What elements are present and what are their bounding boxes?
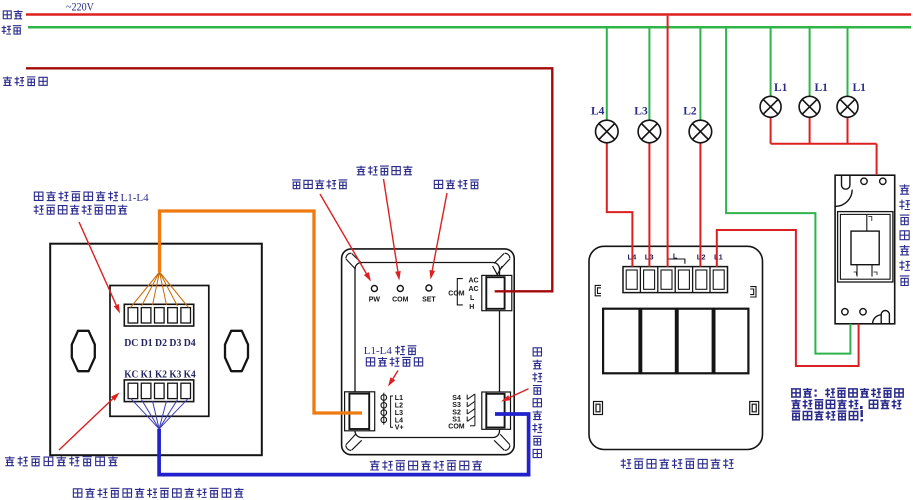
lamp labels [591, 82, 866, 118]
warning note line1 注意：浪涌电流抑制器 [792, 389, 800, 397]
connector P2 bottom-left (L1-L4 V+ outputs) [345, 392, 375, 431]
suppressor top-left arc [835, 190, 852, 207]
label 通讯指示灯 [356, 166, 365, 175]
arrow to LED SET [432, 193, 447, 271]
svg-text:L2: L2 [395, 403, 403, 410]
svg-text:H: H [469, 304, 474, 311]
switch contact symbols S4-S1 [467, 394, 475, 426]
svg-text:L3: L3 [634, 106, 648, 118]
label 分布式驱动模块背面 [621, 459, 631, 469]
suppressor top screw holes [861, 178, 867, 184]
suppressor pins and marks [854, 215, 878, 277]
svg-text:L1-L4: L1-L4 [121, 192, 150, 204]
svg-text:AC: AC [469, 278, 479, 285]
wire orange feedback harness panel to module P2 [160, 211, 363, 413]
wire neutral 零线 rail [28, 26, 911, 29]
svg-text:S4: S4 [452, 395, 461, 402]
labels S4 S3 S2 S1 COM [448, 395, 465, 431]
module U2 分布式驱动模块背面 body [589, 246, 763, 449]
arrow to connector J1 [79, 222, 116, 305]
labels L1 L2 L3 L4 V+ [395, 395, 404, 431]
svg-text:PW: PW [369, 297, 381, 304]
svg-text:L2: L2 [683, 106, 697, 118]
suppressor bottom-right arc [873, 315, 882, 324]
svg-text:L1: L1 [815, 82, 829, 94]
connector J2 bottom (KC K1-K4 key contacts) [124, 380, 193, 402]
arrow to LED COM [384, 179, 398, 271]
blue fan-out wires from connector J2 [131, 398, 189, 429]
label 浪涌电流抑制器 vertical [900, 184, 910, 194]
wire live drop to terminal L [667, 16, 669, 267]
label 状态反馈指示接口 [34, 205, 44, 214]
wire neutral drop to lamp L2 [699, 28, 701, 121]
suppressor top-left DIN notch [842, 175, 850, 189]
svg-text:S2: S2 [452, 409, 461, 416]
svg-text:COM: COM [448, 290, 465, 297]
connector P3 bottom-right (S4-S1 COM inputs) [482, 392, 511, 429]
svg-text:L1: L1 [774, 82, 788, 94]
LED SET [426, 285, 432, 291]
panel 第三方干接点面板 outer body [50, 244, 262, 456]
label 反馈指示灯 [366, 358, 374, 366]
labels AC AC L H [469, 278, 479, 311]
svg-text:L4: L4 [395, 417, 403, 424]
arrow to connector P3 [509, 389, 528, 398]
wire suppressor bottom to terminal L1 [717, 230, 859, 366]
lamp L2 [689, 120, 712, 143]
label 干接点信号控制按键 [5, 456, 15, 466]
svg-text:AC: AC [469, 286, 479, 293]
relay cover rectangles x4 [603, 309, 748, 374]
module U1 inner face [355, 263, 500, 438]
svg-text:SET: SET [422, 297, 436, 304]
label 零线 [2, 25, 11, 34]
lamp L3 [638, 120, 661, 143]
svg-text:~220V: ~220V [66, 2, 95, 14]
suppressor bottom screw holes [842, 309, 848, 315]
svg-text:S3: S3 [452, 402, 461, 409]
svg-text:L1: L1 [853, 82, 867, 94]
svg-text:V+: V+ [395, 425, 404, 432]
wire lamp L4 to terminal L4 [607, 143, 633, 267]
label 电源指示灯 [292, 180, 301, 189]
svg-text:COM: COM [392, 297, 409, 304]
suppressor inner double frame [838, 212, 893, 282]
panel inner rectangle [110, 286, 209, 417]
clip upper-left [595, 285, 601, 295]
lamp L1 c [837, 96, 858, 117]
warning note line3 导致模块损坏！ [792, 411, 801, 420]
svg-text:L4: L4 [591, 106, 605, 118]
pin header line for L1-V+ labels [391, 396, 393, 427]
wire lamp L2 to terminal L2 [699, 143, 701, 267]
svg-text:L1-L4: L1-L4 [364, 345, 393, 357]
orange fan-out wires to connector J1 [131, 272, 189, 308]
module U1 corner bevels [346, 253, 510, 450]
lamp L1 a [760, 96, 781, 117]
warning note line2 必须接入零线，否则会 [791, 399, 800, 408]
labels PW COM SET [369, 297, 437, 304]
LED COM [397, 286, 403, 292]
LED PW [371, 286, 377, 292]
connector J1 top (DC D1-D4 feedback interface) [124, 304, 193, 326]
wire neutral drop to lamp L4 [606, 28, 608, 121]
connector P1 top-right (COM AC AC L H) [482, 275, 512, 310]
module U1 分布式驱动模块正面 outer body [342, 249, 515, 455]
wire blue key-signal harness panel to module P3 [159, 414, 528, 475]
surge suppressor 浪涌电流抑制器 body [835, 175, 895, 324]
label 分布式驱动模块正面 [370, 460, 380, 470]
svg-text:L1: L1 [714, 253, 723, 262]
wire system bus 系统总线 to module P1 [26, 68, 552, 291]
wire lamp L3 to terminal L3 [648, 143, 650, 267]
svg-text:DC D1 D2 D3 D4: DC D1 D2 D3 D4 [124, 338, 196, 349]
lamp L1 b [799, 96, 820, 117]
label 四路干接点信号输入 vertical [533, 348, 541, 356]
clip upper-right [750, 287, 756, 297]
wire neutral drop to lamp L3 [648, 28, 650, 121]
arrow to L1-L4 LEDs [393, 371, 398, 379]
arrow to LED PW [320, 194, 366, 274]
label 第三方带状态指示的干接点面板 [73, 489, 82, 497]
wire funnel above P1 [493, 266, 503, 275]
suppressor MOV block [851, 231, 879, 265]
terminal block TB1 (L4 L3 L L2 L1) [623, 267, 728, 293]
svg-text:COM: COM [448, 424, 465, 431]
svg-text:L3: L3 [395, 410, 403, 417]
bracket for AC AC L H [457, 279, 463, 305]
label 本模块驱动对象L1-L4 [34, 192, 43, 200]
panel right mounting hole [225, 331, 248, 371]
arrow to connector J2 [59, 399, 113, 450]
wire neutral to suppressor bottom [726, 28, 850, 354]
label 火线 [3, 11, 11, 19]
bracket under L terminal [668, 259, 685, 264]
wire neutral drops to L1 lamps [770, 28, 772, 97]
label 设置按扭 [434, 180, 442, 188]
panel left mounting hole [72, 331, 95, 371]
svg-text:L: L [470, 295, 475, 302]
wire live 火线 rail [26, 13, 911, 16]
clip lower-right [750, 402, 759, 415]
svg-text:KC K1 K2 K3 K4: KC K1 K2 K3 K4 [124, 369, 196, 380]
wire L1 lamps harness to suppressor top [771, 117, 877, 175]
LED indicators L1-L4 (circle-plus symbols) [381, 393, 387, 425]
lamp L4 [596, 120, 619, 143]
label 系统总线 [3, 76, 12, 85]
terminal labels L4 L3 L L2 L1 [628, 252, 723, 262]
suppressor bottom-right notch [881, 310, 889, 323]
svg-text:L1: L1 [395, 395, 403, 402]
clip lower-left [594, 402, 603, 415]
